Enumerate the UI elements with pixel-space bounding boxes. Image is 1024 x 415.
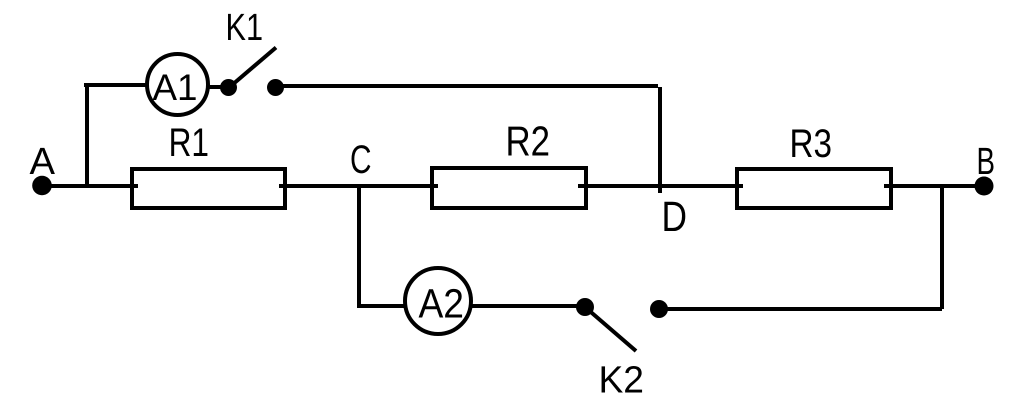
svg-text:A1: A1 — [153, 67, 198, 108]
svg-text:B: B — [977, 141, 996, 183]
svg-text:R2: R2 — [506, 118, 551, 165]
svg-text:A: A — [30, 141, 56, 183]
svg-text:C: C — [350, 138, 372, 182]
svg-text:D: D — [662, 194, 688, 241]
svg-text:R1: R1 — [169, 121, 209, 165]
svg-text:A2: A2 — [419, 281, 465, 327]
svg-text:R3: R3 — [790, 122, 833, 166]
svg-text:K1: K1 — [226, 7, 264, 49]
svg-text:K2: K2 — [599, 360, 645, 402]
